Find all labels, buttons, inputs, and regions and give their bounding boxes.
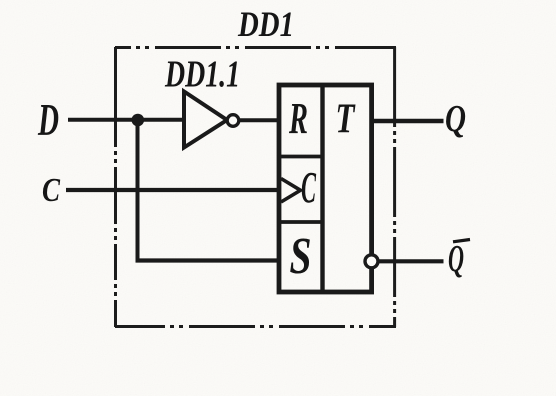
wire to S input	[136, 258, 280, 262]
divider R/C cells	[279, 155, 322, 159]
svg-text:Q: Q	[448, 238, 464, 280]
inverter DD1.1 triangle	[184, 92, 227, 148]
unit boundary DD1 dash-double-dot frame	[115, 47, 396, 327]
dynamic input chevron at C	[281, 179, 301, 203]
divider C/S cells	[279, 220, 322, 224]
overbar of Q-bar	[453, 240, 470, 242]
svg-text:DD1.1: DD1.1	[164, 54, 240, 96]
svg-text:T: T	[336, 97, 357, 143]
wire junction down to S row	[136, 120, 140, 263]
svg-text:C: C	[42, 172, 60, 209]
svg-text:S: S	[290, 228, 312, 285]
node junction dot on D line	[132, 114, 145, 127]
wire inverter bubble to R input	[239, 118, 279, 122]
svg-text:D: D	[37, 95, 59, 145]
svg-text:R: R	[288, 94, 308, 143]
wire junction to inverter input	[138, 118, 185, 122]
wire C input	[66, 188, 279, 192]
inverter DD1.1 output bubble	[227, 115, 239, 127]
svg-text:DD1: DD1	[237, 4, 294, 44]
svg-text:C: C	[301, 163, 316, 212]
flip-flop control/main field divider	[320, 85, 324, 292]
svg-text:Q: Q	[445, 98, 466, 140]
wire Q-bar output	[378, 259, 443, 263]
inversion bubble at Q-bar output	[365, 255, 378, 268]
wire Q output	[372, 119, 444, 123]
flip-flop body outline	[279, 85, 372, 292]
wire D input to junction	[68, 118, 138, 122]
